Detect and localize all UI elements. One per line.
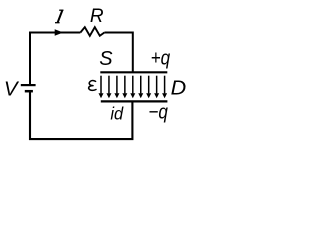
svg-text:S: S — [99, 48, 113, 70]
svg-text:R: R — [90, 6, 104, 27]
svg-text:+q: +q — [151, 48, 171, 70]
svg-text:−q: −q — [148, 101, 168, 123]
svg-text:V: V — [4, 77, 20, 100]
svg-text:D: D — [171, 78, 187, 100]
svg-text:id: id — [110, 103, 124, 123]
